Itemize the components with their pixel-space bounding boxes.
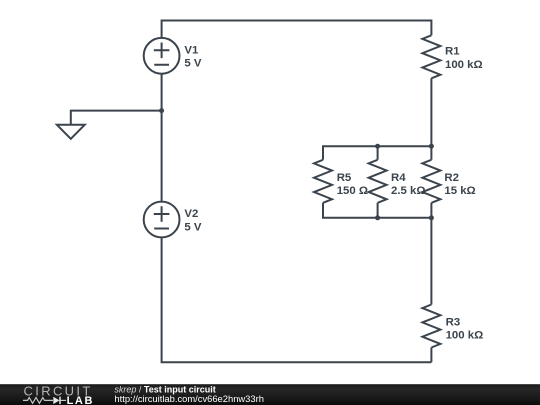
svg-text:150 Ω: 150 Ω [337, 185, 368, 197]
svg-text:15 kΩ: 15 kΩ [444, 185, 475, 197]
svg-text:R3: R3 [446, 316, 461, 328]
svg-text:R4: R4 [391, 172, 406, 184]
svg-text:2.5 kΩ: 2.5 kΩ [391, 185, 425, 197]
svg-text:LAB: LAB [67, 395, 94, 405]
svg-text:R2: R2 [444, 172, 459, 184]
svg-text:V2: V2 [184, 208, 198, 220]
svg-text:V1: V1 [184, 44, 199, 56]
svg-text:5 V: 5 V [184, 221, 201, 233]
svg-text:R1: R1 [445, 46, 460, 58]
svg-text:5 V: 5 V [184, 58, 201, 70]
svg-text:100 kΩ: 100 kΩ [446, 330, 484, 342]
svg-text:100 kΩ: 100 kΩ [445, 59, 483, 71]
svg-text:http://circuitlab.com/cv66e2hn: http://circuitlab.com/cv66e2hnw33rh [114, 393, 264, 404]
svg-text:R5: R5 [337, 172, 352, 184]
